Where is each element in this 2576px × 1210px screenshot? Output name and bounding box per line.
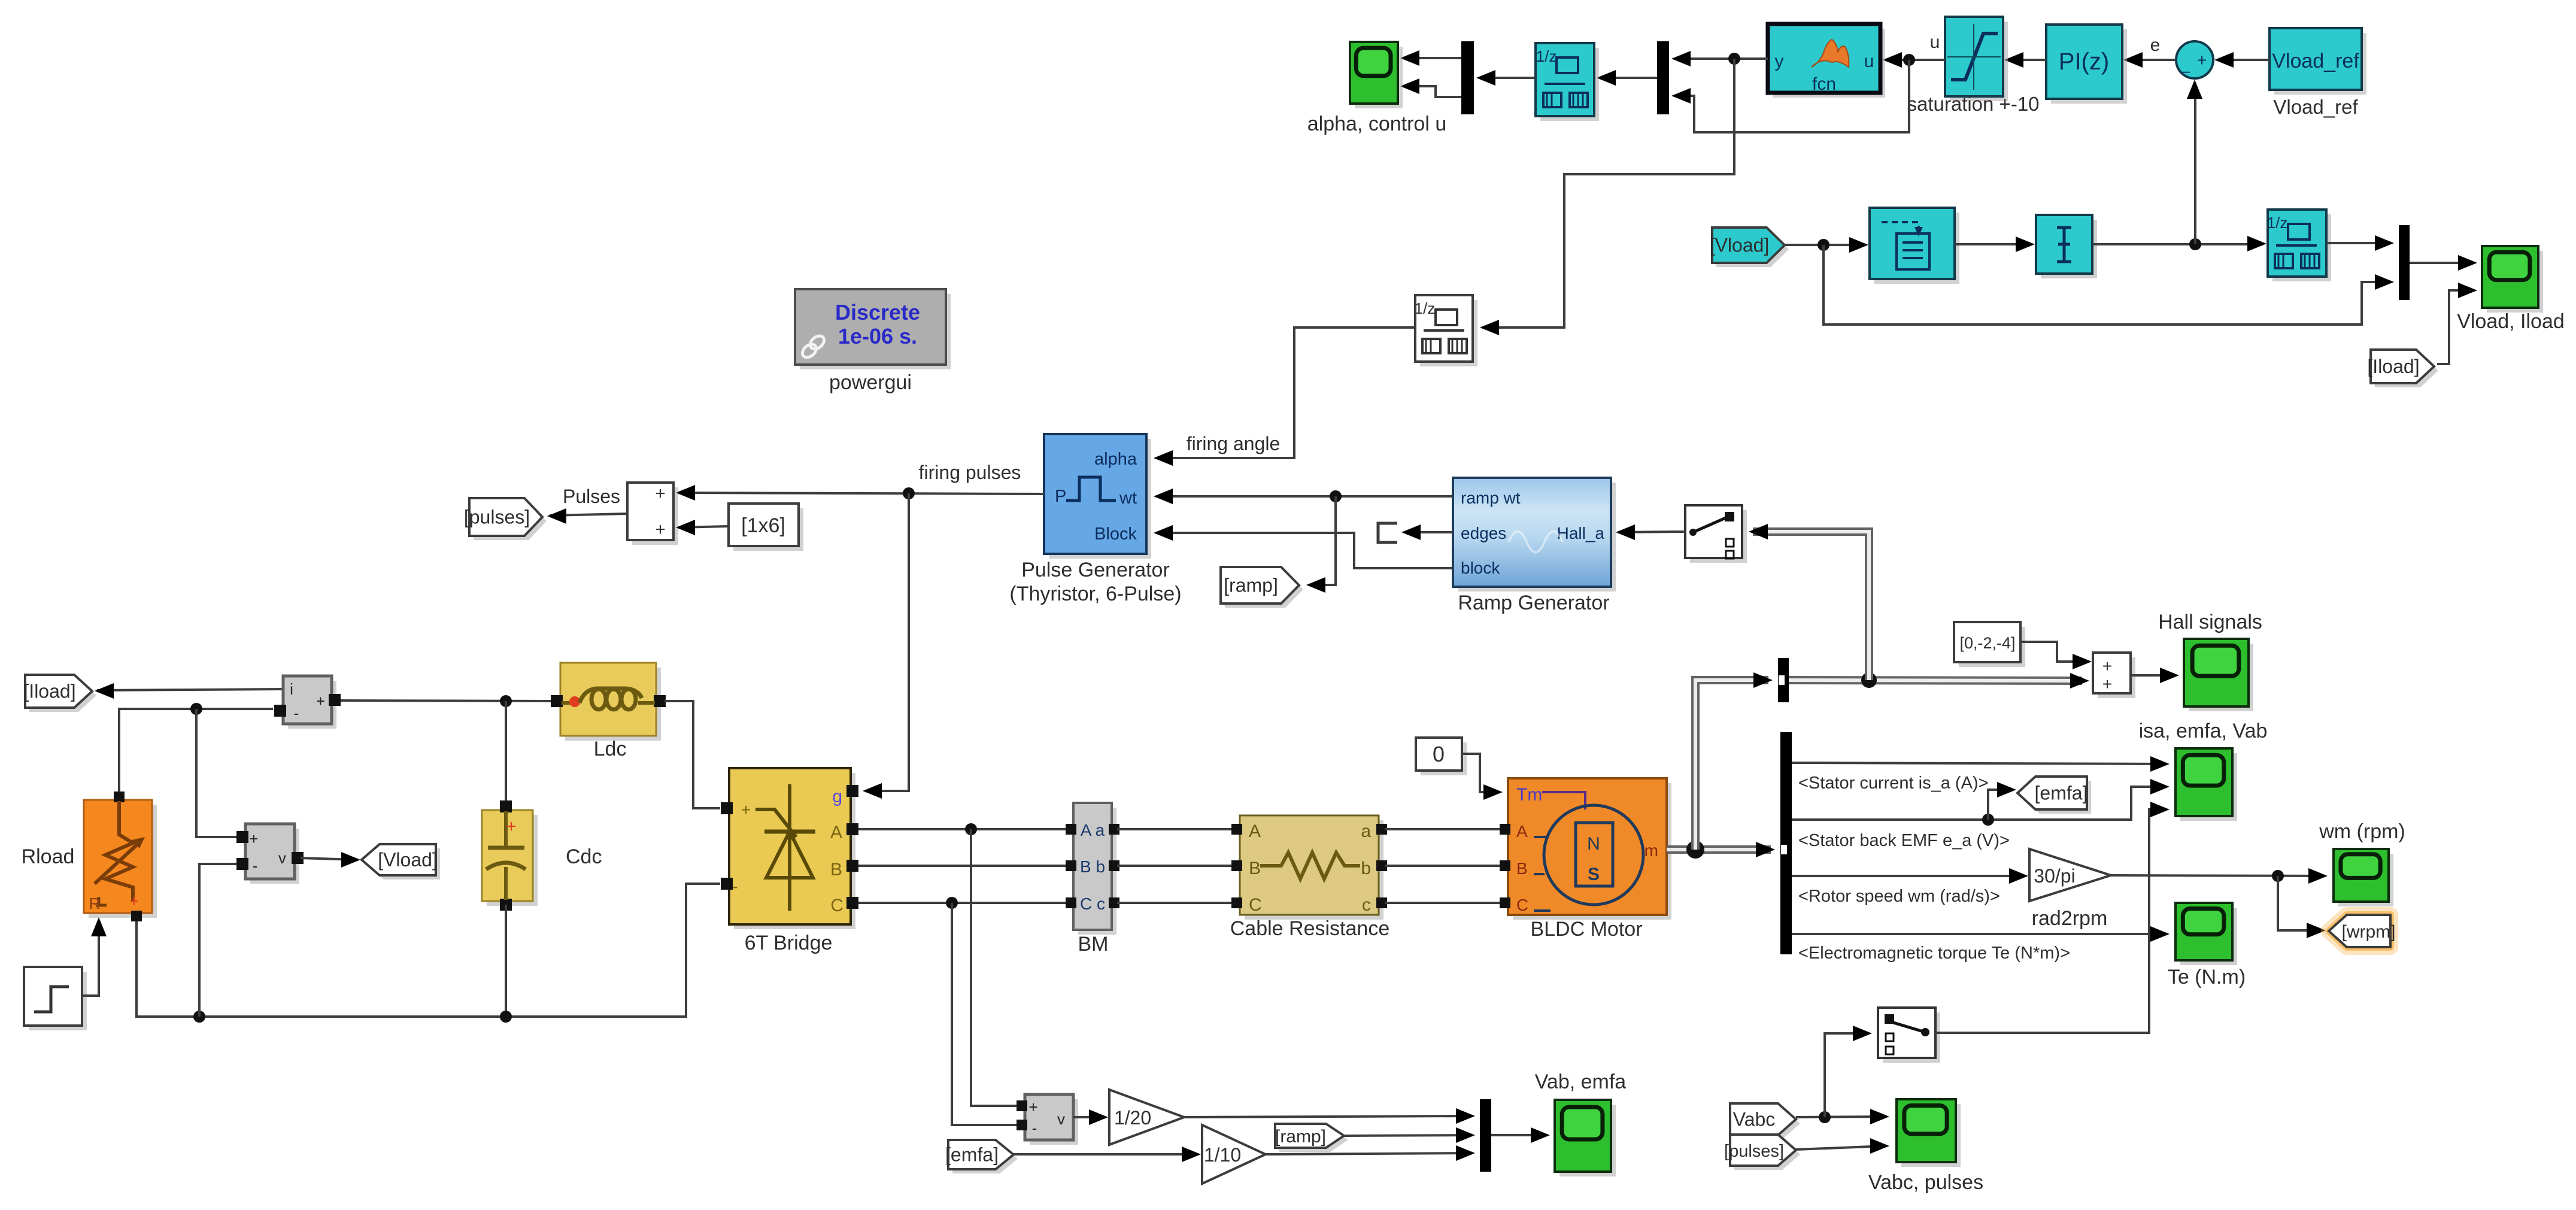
scope wm rpm xyxy=(2334,849,2393,906)
svg-text:g: g xyxy=(832,787,842,806)
wire mean to RMS block xyxy=(1955,236,2035,252)
svg-text:Discrete: Discrete xyxy=(835,300,920,325)
label Cdc xyxy=(566,845,602,868)
svg-text:Vload, Iload: Vload, Iload xyxy=(2457,310,2565,333)
wire stator back EMF output xyxy=(1792,779,2170,826)
svg-text:Hall signals: Hall signals xyxy=(2158,611,2262,633)
svg-text:a: a xyxy=(1361,821,1371,841)
sum block S3 (hall offset) xyxy=(2093,653,2135,698)
wire branch to goto wrpm xyxy=(2278,876,2326,938)
wire mux M2 to unit delay UD1 xyxy=(1597,70,1657,86)
svg-text:Cdc: Cdc xyxy=(566,845,602,868)
label firing angle xyxy=(1187,433,1281,454)
svg-text:[1x6]: [1x6] xyxy=(741,514,785,537)
svg-text:Pulse Generator: Pulse Generator xyxy=(1021,559,1170,581)
svg-text:wt: wt xyxy=(1119,489,1137,508)
wire current measurement i to goto Iload xyxy=(95,683,283,699)
svg-text:0: 0 xyxy=(1433,742,1445,766)
svg-text:1/20: 1/20 xyxy=(1114,1107,1151,1129)
wire Vload feedback to mux M3 xyxy=(1823,245,2394,325)
svg-text:Tm: Tm xyxy=(1516,785,1542,805)
mux M4 xyxy=(1480,1099,1491,1172)
svg-text:Hall_a: Hall_a xyxy=(1557,524,1605,542)
wire ramp to mux M4 xyxy=(1344,1127,1475,1143)
svg-text:BM: BM xyxy=(1078,933,1109,956)
bus BLDC m output to demux xyxy=(1667,841,1775,859)
block capacitor Cdc xyxy=(482,800,538,911)
wires BM to Cable Resistance xyxy=(1117,829,1234,903)
svg-text:Vabc, pulses: Vabc, pulses xyxy=(1868,1171,1983,1194)
svg-text:Vab, emfa: Vab, emfa xyxy=(1535,1070,1627,1093)
wire UD3 to pulse generator alpha (firing angle) xyxy=(1154,327,1415,466)
block Pulse Generator (Thyristor 6-Pulse) xyxy=(1044,434,1151,559)
svg-text:isa, emfa, Vab: isa, emfa, Vab xyxy=(2139,720,2268,742)
svg-text:-: - xyxy=(294,704,299,722)
wire Rload bottom to negative bus xyxy=(136,884,720,1023)
svg-text:<Electromagnetic torque Te (N*: <Electromagnetic torque Te (N*m)> xyxy=(1798,944,2070,963)
svg-text:[wrpm]: [wrpm] xyxy=(2342,922,2396,942)
svg-text:Block: Block xyxy=(1094,524,1137,544)
block Vload_ref (constant) xyxy=(2269,28,2366,95)
svg-text:+: + xyxy=(249,830,258,848)
block unit delay UD3 1/z (white) xyxy=(1415,295,1477,366)
wire current measurement plus to Ldc xyxy=(341,695,551,707)
svg-text:[0,-2,-4]: [0,-2,-4] xyxy=(1959,634,2015,652)
svg-text:edges: edges xyxy=(1461,524,1506,542)
block BLDC Motor xyxy=(1500,778,1671,920)
scope Te xyxy=(2176,903,2237,965)
svg-text:C: C xyxy=(1516,896,1528,914)
svg-text:1/z: 1/z xyxy=(1536,47,1557,65)
wire saturation branch to mux M2 input2 xyxy=(1671,60,1909,132)
from tag pulses (bottom) xyxy=(1724,1135,1800,1170)
from tag Vabc xyxy=(1730,1103,1800,1139)
wire B2 to unit delay UD2 xyxy=(2092,236,2266,251)
block constant [0,-2,-4] xyxy=(1954,622,2025,667)
svg-text:-: - xyxy=(253,857,258,875)
from tag emfa (bottom) xyxy=(945,1140,1018,1173)
wire bridge A to BM xyxy=(858,823,1066,835)
block unit delay UD2 1/z xyxy=(2267,210,2331,281)
block PI(z) controller xyxy=(2046,25,2127,104)
svg-text:[pulses]: [pulses] xyxy=(464,507,530,528)
bus branch up to manual switch SW1 xyxy=(1749,524,1869,680)
wire VM2 to gain 1/20 xyxy=(1073,1109,1108,1125)
wire sum to PI(z) xyxy=(2123,52,2176,68)
label Ramp Generator xyxy=(1458,592,1609,614)
wire fcn y to mux M2 xyxy=(1671,51,1768,66)
wire sum S2 to goto pulses xyxy=(547,508,627,524)
block three-phase measurement BM xyxy=(1066,803,1119,935)
scope Vabc pulses xyxy=(1897,1099,1961,1167)
gain 1/10 xyxy=(1202,1125,1266,1184)
svg-text:m: m xyxy=(1644,841,1658,860)
svg-text:u: u xyxy=(1930,32,1940,52)
svg-text:B b: B b xyxy=(1080,857,1105,876)
svg-text:fcn: fcn xyxy=(1812,74,1836,94)
svg-text:B: B xyxy=(1249,859,1261,878)
wire emfa to gain 1/10 xyxy=(1014,1147,1201,1162)
block B2 xyxy=(2036,215,2097,278)
svg-text:[Iload]: [Iload] xyxy=(2367,356,2419,377)
svg-text:ramp wt: ramp wt xyxy=(1461,489,1521,507)
label isa, emfa, Vab xyxy=(2139,720,2268,742)
svg-text:Te (N.m): Te (N.m) xyxy=(2168,966,2246,988)
wire block output to pulse generator Block xyxy=(1154,525,1453,568)
svg-text:1/z: 1/z xyxy=(1415,299,1436,317)
label e xyxy=(2150,35,2161,55)
svg-text:Ramp Generator: Ramp Generator xyxy=(1458,592,1609,614)
wire constant to hall sum xyxy=(2020,642,2092,669)
svg-text:-: - xyxy=(1032,1119,1037,1137)
svg-text:+: + xyxy=(2102,657,2112,675)
wire demux D1 out1 to scope xyxy=(1400,50,1461,66)
svg-text:+: + xyxy=(655,520,666,539)
svg-text:R: R xyxy=(89,894,101,912)
svg-text:PI(z): PI(z) xyxy=(2059,48,2109,75)
label Hall signals xyxy=(2158,611,2262,633)
svg-text:A: A xyxy=(1516,822,1528,841)
svg-text:v: v xyxy=(278,849,286,867)
label alpha, control u xyxy=(1307,113,1447,135)
svg-text:e: e xyxy=(2150,35,2161,55)
sum block S2 (pulses +) xyxy=(627,483,678,545)
svg-text:rad2rpm: rad2rpm xyxy=(2032,907,2108,930)
label powergui xyxy=(829,371,912,394)
svg-text:block: block xyxy=(1461,559,1500,577)
svg-text:v: v xyxy=(1057,1110,1065,1128)
wire gain 1/10 to mux M4 xyxy=(1266,1145,1475,1161)
svg-text:+: + xyxy=(316,692,325,710)
svg-text:+: + xyxy=(506,817,517,836)
svg-text:A: A xyxy=(1249,821,1261,841)
svg-text:+: + xyxy=(2102,675,2112,693)
wire ramp wt branch to goto ramp xyxy=(1306,496,1336,593)
scope Vload Iload xyxy=(2482,246,2543,313)
svg-text:A a: A a xyxy=(1081,821,1105,839)
svg-text:[Iload]: [Iload] xyxy=(23,681,75,702)
wire branch to goto emfa xyxy=(1988,782,2016,820)
svg-text:+: + xyxy=(741,800,751,819)
wire Vabc branch up to switch SW2 xyxy=(1825,1026,1872,1117)
block inductor Ldc xyxy=(551,663,666,741)
svg-text:[Vload]: [Vload] xyxy=(378,849,438,871)
wire step to Rload R input xyxy=(82,917,107,996)
svg-text:C c: C c xyxy=(1080,894,1105,913)
block unit delay UD1 1/z xyxy=(1536,43,1599,121)
wire Cdc bottom to negative bus xyxy=(505,905,507,1017)
label rad2rpm xyxy=(2032,907,2108,930)
wire fcn y branch to unit delay UD3 xyxy=(1480,59,1734,335)
label Vload, Iload xyxy=(2457,310,2565,333)
wire hall sum to scope xyxy=(2131,668,2179,683)
label Ldc xyxy=(594,738,627,760)
svg-text:y: y xyxy=(1775,51,1784,71)
svg-text:1/z: 1/z xyxy=(2267,214,2288,232)
wire stator current output to scope isa xyxy=(1792,756,2170,772)
wire switch SW1 to Hall_a xyxy=(1616,524,1685,540)
goto tag ramp xyxy=(1221,567,1303,608)
wire branch A down to Vab measurement plus xyxy=(971,829,1022,1106)
block variable resistor Rload xyxy=(84,791,157,921)
block constant 1x6 xyxy=(729,504,803,551)
svg-text:-: - xyxy=(732,877,738,896)
wire 1x6 to sum S2 xyxy=(676,520,729,535)
label wm (rpm) xyxy=(2319,820,2405,843)
bus selector SEL1 xyxy=(1778,658,1789,702)
label firing pulses xyxy=(919,462,1021,483)
block powergui xyxy=(795,289,951,369)
svg-text:P: P xyxy=(1055,487,1066,506)
block constant 0 (torque) xyxy=(1416,738,1467,775)
label Vload_ref xyxy=(2273,96,2358,118)
svg-text:c: c xyxy=(1362,895,1371,915)
wire firing pulses from P output xyxy=(676,485,1044,501)
wire demux D1 out2 to scope xyxy=(1400,78,1461,97)
wire mux M4 to scope Vab emfa xyxy=(1491,1127,1550,1143)
from tag ramp (bottom) xyxy=(1275,1124,1348,1152)
label Electromagnetic torque xyxy=(1798,944,2070,963)
svg-text:1e-06 s.: 1e-06 s. xyxy=(838,324,917,348)
wire mux M3 to scope Vload Iload xyxy=(2410,255,2477,271)
wire ramp wt to pulse generator wt xyxy=(1154,489,1453,504)
scope alpha control u xyxy=(1350,42,1403,108)
svg-text:C: C xyxy=(1249,895,1262,915)
svg-text:<Rotor speed wm (rad/s)>: <Rotor speed wm (rad/s)> xyxy=(1798,887,2000,906)
wire Vload to mean block xyxy=(1785,237,1868,253)
gain rad2rpm 30/pi xyxy=(2029,849,2111,901)
wire unit delay UD1 to demux D1 xyxy=(1476,70,1536,86)
wire Ldc to bridge plus xyxy=(665,701,720,808)
svg-text:Vload_ref: Vload_ref xyxy=(2272,50,2359,72)
wire branch C down to Vab measurement minus xyxy=(952,903,1022,1125)
block fcn (MATLAB function) xyxy=(1768,24,1885,98)
svg-text:+: + xyxy=(655,484,666,504)
wire Vload_ref to sum xyxy=(2214,52,2269,68)
wire switch SW2 to scope isa input 3 xyxy=(1935,802,2170,1033)
svg-text:powergui: powergui xyxy=(829,371,912,394)
svg-text:Cable Resistance: Cable Resistance xyxy=(1230,917,1389,940)
wire edges to terminator xyxy=(1401,524,1453,540)
label Rload xyxy=(22,845,75,868)
svg-text:Vabc: Vabc xyxy=(1733,1109,1776,1130)
svg-text:[ramp]: [ramp] xyxy=(1224,575,1278,596)
svg-text:firing angle: firing angle xyxy=(1187,433,1281,454)
svg-text:Rload: Rload xyxy=(22,845,75,868)
label Pulses xyxy=(563,486,620,507)
gain 1/20 xyxy=(1109,1090,1184,1145)
terminator E (edges) xyxy=(1378,523,1397,542)
label Vab, emfa xyxy=(1535,1070,1627,1093)
wire firing pulses branch down to bridge g xyxy=(863,493,909,799)
svg-text:alpha: alpha xyxy=(1094,450,1137,469)
manual switch SW1 xyxy=(1685,505,1747,563)
block voltage measurement VM1 xyxy=(236,824,304,884)
bus selector SEL1 output to hall sum xyxy=(1789,672,2089,689)
wire Vabc to scope xyxy=(1796,1109,1889,1124)
svg-text:alpha, control u: alpha, control u xyxy=(1307,113,1447,135)
svg-text:+: + xyxy=(129,892,138,910)
mux M3 xyxy=(2399,225,2410,300)
wire gain 1/20 to mux M4 xyxy=(1184,1108,1475,1124)
demux D2 (bus selector) xyxy=(1780,732,1792,954)
wire Iload to scope xyxy=(2437,283,2477,364)
svg-text:_: _ xyxy=(2180,54,2190,73)
svg-text:[ramp]: [ramp] xyxy=(1275,1127,1326,1147)
svg-text:1/10: 1/10 xyxy=(1204,1144,1241,1166)
svg-text:C: C xyxy=(830,896,844,915)
wire PI(z) to saturation xyxy=(2004,52,2046,68)
label Vabc, pulses xyxy=(1868,1171,1983,1194)
svg-text:b: b xyxy=(1361,859,1371,878)
label BM xyxy=(1078,933,1109,956)
goto tag emfa xyxy=(2017,777,2091,814)
svg-text:Pulses: Pulses xyxy=(563,486,620,507)
wire rotor speed to gain xyxy=(1792,868,2028,884)
svg-text:Vload_ref: Vload_ref xyxy=(2273,96,2358,118)
goto tag Vload xyxy=(362,844,440,880)
wire Rload top to current measurement minus xyxy=(119,703,273,800)
wire voltage measurement minus riser xyxy=(199,864,241,1017)
label Pulse Generator (Thyristor, 6-Pulse) xyxy=(1009,559,1181,605)
block 6T Bridge xyxy=(721,768,858,929)
demux D1 xyxy=(1461,41,1474,114)
wire bridge C to BM xyxy=(858,897,1066,909)
label Te (N.m) xyxy=(2168,966,2246,988)
svg-text:firing pulses: firing pulses xyxy=(919,462,1021,483)
label 6T Bridge xyxy=(745,932,833,954)
svg-text:wm (rpm): wm (rpm) xyxy=(2319,820,2405,843)
sum junction S1 (+-) xyxy=(2176,41,2213,78)
block current measurement CM1 xyxy=(274,676,341,729)
wire bridge B to BM xyxy=(858,865,1066,867)
svg-text:B: B xyxy=(1516,859,1528,878)
svg-text:S: S xyxy=(1588,865,1600,884)
manual switch SW2 xyxy=(1878,1008,1940,1063)
wire constant 0 to BLDC Tm xyxy=(1462,754,1503,800)
svg-text:+: + xyxy=(1028,1098,1037,1116)
block Cable Resistance xyxy=(1231,815,1387,920)
label saturation +-10 xyxy=(1907,93,2039,115)
goto tag pulses xyxy=(464,498,547,540)
wire electromagnetic torque to scope Te xyxy=(1792,926,2170,942)
scope isa emfa Vab xyxy=(2176,748,2237,821)
block saturation xyxy=(1945,17,2008,101)
from tag Iload (top right) xyxy=(2367,350,2438,387)
label u (saturation output) xyxy=(1930,32,1940,52)
label Cable Resistance xyxy=(1230,917,1389,940)
svg-text:[Vload]: [Vload] xyxy=(1710,235,1770,256)
svg-text:B: B xyxy=(830,860,842,880)
wire branch up to sum S1 xyxy=(2187,80,2202,244)
block step input xyxy=(24,967,87,1030)
wire saturation to fcn u xyxy=(1883,52,1945,68)
svg-text:30/pi: 30/pi xyxy=(2034,865,2075,887)
block voltage measurement VM2 (Vab) xyxy=(1017,1094,1078,1145)
svg-text:+: + xyxy=(2197,51,2207,69)
svg-text:<Stator current is_a (A)>: <Stator current is_a (A)> xyxy=(1798,774,1989,793)
label Stator back EMF xyxy=(1798,831,2010,850)
wire gain to scope wm xyxy=(2111,868,2328,884)
scope Hall signals xyxy=(2184,639,2253,711)
label Rotor speed xyxy=(1798,887,2000,906)
scope Vab emfa xyxy=(1555,1100,1616,1176)
svg-text:6T Bridge: 6T Bridge xyxy=(745,932,833,954)
wire voltage measurement to goto Vload xyxy=(301,852,360,868)
wire branch down to Cdc top xyxy=(505,701,507,800)
svg-text:BLDC Motor: BLDC Motor xyxy=(1530,918,1642,941)
svg-text:A: A xyxy=(830,823,842,842)
goto tag Iload (left) xyxy=(23,675,96,712)
svg-text:<Stator back EMF e_a (V)>: <Stator back EMF e_a (V)> xyxy=(1798,831,2010,850)
svg-text:(Thyristor, 6-Pulse): (Thyristor, 6-Pulse) xyxy=(1009,583,1181,605)
svg-text:Ldc: Ldc xyxy=(594,738,627,760)
svg-text:saturation +-10: saturation +-10 xyxy=(1907,93,2039,115)
from tag Vload xyxy=(1710,228,1789,267)
bus branch up to selector xyxy=(1695,672,1773,850)
wire pulses to scope xyxy=(1796,1138,1889,1154)
wire branch to voltage measurement plus xyxy=(196,709,241,837)
block mean value B1 xyxy=(1870,208,1959,284)
mux M2 xyxy=(1657,41,1669,114)
label Stator current xyxy=(1798,774,1989,793)
svg-text:[pulses]: [pulses] xyxy=(1724,1142,1784,1161)
svg-text:[emfa]: [emfa] xyxy=(2035,783,2088,804)
svg-text:N: N xyxy=(1587,834,1600,854)
wire UD2 to mux M3 xyxy=(2326,235,2394,251)
goto tag wrpm (highlighted) xyxy=(2329,915,2396,947)
svg-text:[emfa]: [emfa] xyxy=(945,1144,999,1166)
svg-text:i: i xyxy=(290,680,293,698)
wires Cable Resistance to BLDC motor xyxy=(1385,829,1503,903)
label BLDC Motor xyxy=(1530,918,1642,941)
svg-text:u: u xyxy=(1864,51,1874,71)
